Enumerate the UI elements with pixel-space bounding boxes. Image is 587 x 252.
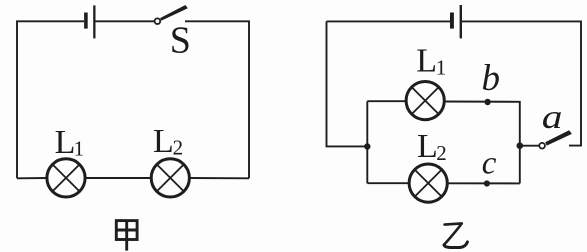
label 甲 (caption, drawn) [116, 221, 137, 251]
svg-text:b: b [482, 58, 501, 99]
node junction right (dot) [517, 142, 524, 149]
svg-text:S: S [170, 20, 191, 62]
wire: lower branch left [367, 182, 409, 184]
label a (node a / switch) [542, 98, 563, 136]
wire: left circuit left side [17, 21, 84, 178]
wire: battery to switch S [96, 20, 155, 22]
svg-text:a: a [542, 98, 563, 136]
lamp L2 (right circuit) [409, 164, 447, 202]
node c (dot) [484, 180, 490, 186]
svg-text:L: L [153, 123, 174, 160]
battery B1 (left circuit) negative plate [84, 13, 88, 29]
wire: right vertical connector lower half [519, 146, 521, 184]
wire: right circuit left side down and middle stub [327, 21, 368, 146]
svg-text:L: L [417, 128, 438, 165]
switch a blade [545, 130, 572, 145]
node junction left (dot) [364, 143, 370, 149]
wire: upper branch left [367, 100, 406, 102]
svg-text:2: 2 [436, 141, 447, 165]
svg-text:L: L [416, 42, 437, 79]
lamp L2 (left circuit) [151, 159, 189, 197]
label 乙 (caption, drawn) [444, 223, 467, 247]
svg-text:1: 1 [74, 136, 85, 160]
svg-text:1: 1 [436, 56, 447, 80]
svg-text:L: L [55, 124, 76, 161]
wire: top side with battery B2 [327, 20, 451, 22]
wire: battery to top-right corner and down [462, 21, 581, 145]
lamp L1 (left circuit) [47, 159, 85, 197]
wire: between lamps L1 and L2 [85, 177, 151, 179]
switch a pivot circle [539, 143, 545, 149]
switch S pivot circle [155, 18, 161, 24]
wire: upper branch right through node b [444, 102, 520, 146]
wire: switch to top-right corner down to bottom-right [185, 21, 249, 178]
svg-text:2: 2 [173, 136, 184, 160]
wire: bottom-right corner to lamp L2 [189, 177, 249, 179]
battery B1 (left circuit) positive plate [93, 5, 95, 38]
wire: bottom-left corner to lamp L1 [17, 177, 47, 179]
wire: left vertical connector between branches [366, 101, 368, 183]
switch S blade [160, 5, 188, 21]
node b (dot) [484, 99, 490, 105]
lamp L1 (right circuit) [406, 82, 444, 120]
svg-text:c: c [482, 146, 497, 182]
battery B2 (right circuit) negative plate [450, 13, 454, 29]
wire: lower branch right through node c [447, 182, 520, 184]
battery B2 (right circuit) positive plate [460, 5, 462, 38]
wire: junction to switch a [520, 145, 540, 147]
